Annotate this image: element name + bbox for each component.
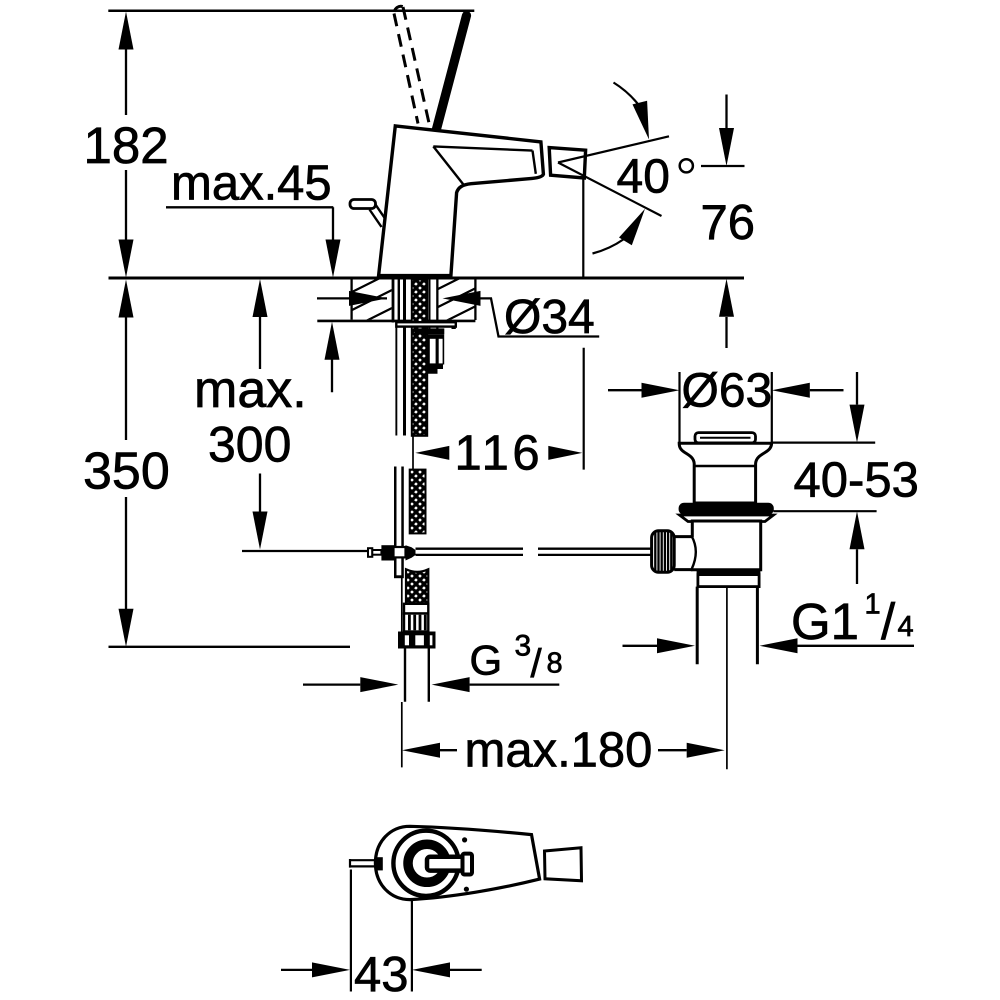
svg-text:4: 4	[898, 611, 914, 643]
svg-text:40: 40	[617, 150, 670, 203]
svg-text:Ø63: Ø63	[682, 365, 773, 418]
svg-text:max.: max.	[194, 361, 307, 419]
svg-text:300: 300	[208, 417, 291, 473]
svg-text:Ø34: Ø34	[504, 291, 595, 344]
svg-text:76: 76	[701, 196, 756, 250]
svg-text:max.180: max.180	[465, 724, 653, 778]
svg-text:/: /	[881, 593, 896, 650]
svg-text:G1: G1	[791, 593, 859, 650]
svg-text:3: 3	[515, 629, 532, 662]
svg-text:1: 1	[865, 589, 881, 621]
svg-text:/: /	[531, 642, 543, 686]
svg-text:8: 8	[547, 648, 563, 680]
svg-text:116: 116	[455, 427, 544, 481]
svg-text:43: 43	[354, 948, 409, 1000]
svg-text:350: 350	[83, 443, 170, 501]
svg-text:40-53: 40-53	[794, 453, 919, 507]
svg-text:182: 182	[84, 117, 169, 174]
svg-text:max.45: max.45	[171, 157, 332, 211]
svg-text:G: G	[470, 637, 503, 684]
